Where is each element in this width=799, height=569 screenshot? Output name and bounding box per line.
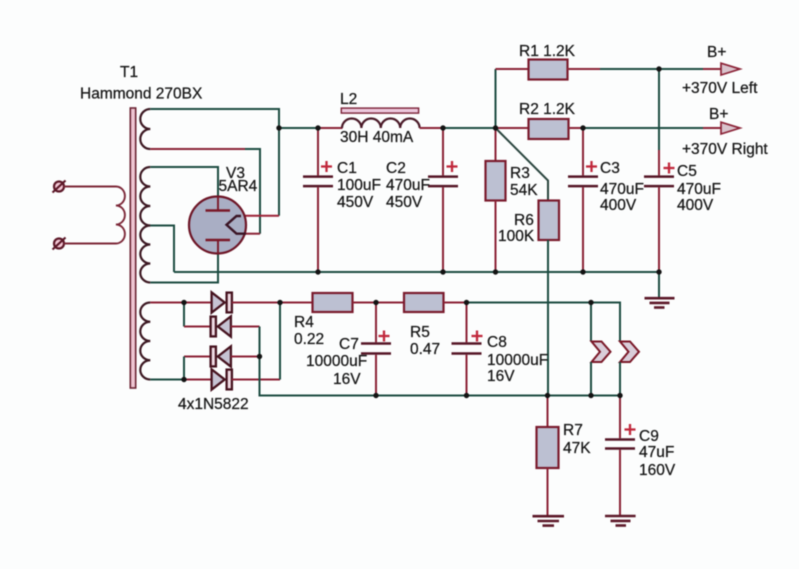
svg-text:Hammond 270BX: Hammond 270BX — [80, 86, 203, 103]
wire cathode lower stub — [246, 233, 260, 235]
svg-text:100uF: 100uF — [337, 177, 381, 194]
junction C1 / main rail — [315, 125, 320, 130]
output arrow B+ left — [721, 63, 740, 75]
wire heater connector 2 to bottom rail — [619, 362, 621, 396]
svg-text:16V: 16V — [487, 368, 515, 385]
svg-text:C8: C8 — [487, 334, 507, 351]
svg-text:B+: B+ — [707, 44, 726, 61]
wire D3 cathode down to D4 row — [183, 357, 185, 380]
svg-text:R6: R6 — [514, 212, 534, 229]
wire W1 bottom to cathode lower stub — [245, 149, 260, 234]
svg-text:C9: C9 — [639, 428, 659, 445]
transformer T1 primary winding — [64, 187, 125, 244]
svg-text:47uF: 47uF — [639, 444, 674, 461]
wire R5 to C8 node — [444, 302, 467, 304]
transformer T1 LV secondary (6.3V heater) — [140, 303, 150, 380]
wire R6 down through rails to R7 node — [547, 240, 549, 396]
svg-text:470uF: 470uF — [677, 181, 721, 198]
svg-text:10000uF: 10000uF — [306, 353, 367, 370]
junction W4 top / D2 branch — [181, 300, 186, 305]
capacitor C5 — [644, 150, 674, 272]
diode D4 — [212, 369, 232, 389]
capacitor C3 — [568, 128, 598, 272]
inductor L2 core bar — [341, 108, 418, 113]
wire B+ left arrow lead — [703, 68, 722, 70]
svg-text:400V: 400V — [677, 197, 714, 214]
svg-text:C5: C5 — [677, 163, 697, 180]
wire D4 cathode to riser — [232, 379, 280, 381]
svg-text:R1 1.2K: R1 1.2K — [519, 43, 576, 60]
capacitor C9 — [605, 440, 635, 517]
transformer T1 HV secondary lower half — [140, 226, 150, 283]
svg-text:C3: C3 — [600, 160, 620, 177]
wire R7 to ground — [547, 468, 549, 516]
terminal J1 (mains input top) — [53, 181, 66, 193]
wire C7 node to R5 — [376, 302, 404, 304]
svg-text:100K: 100K — [498, 228, 535, 245]
capacitor C7 — [361, 303, 391, 396]
wire D1 anode lead — [184, 302, 212, 304]
junction R7 node — [545, 393, 550, 398]
svg-text:47K: 47K — [563, 440, 591, 457]
svg-text:400V: 400V — [600, 197, 637, 214]
connector heater output 1 — [592, 342, 611, 363]
wire heater connector 1 drop — [590, 303, 592, 342]
svg-text:R2 1.2K: R2 1.2K — [519, 101, 576, 118]
diode D3 — [211, 346, 231, 366]
output arrow B+ right — [721, 122, 740, 134]
junction C8 top — [464, 300, 469, 305]
svg-text:30H 40mA: 30H 40mA — [340, 129, 414, 146]
junction C3 / main rail — [580, 125, 585, 130]
wire W1 top to cathode node — [150, 109, 279, 216]
wire R1 output to B+ left node — [600, 68, 659, 70]
tube V3 cathode chevron — [227, 216, 247, 234]
resistor R4 — [313, 293, 353, 312]
tube V3 bottom anode plate — [206, 240, 231, 254]
resistor R2 — [529, 119, 569, 139]
inductor L2 winding — [342, 118, 420, 128]
wire negative drop D2-D3 — [259, 327, 261, 357]
junction C8 bottom rail — [464, 393, 469, 398]
wire branch node up to R1 row — [495, 69, 497, 128]
svg-text:450V: 450V — [337, 194, 374, 211]
svg-text:10000uF: 10000uF — [487, 352, 548, 369]
wire R2 right lead — [569, 127, 584, 129]
svg-text:R5: R5 — [410, 324, 430, 341]
junction C9 node — [617, 393, 622, 398]
polarity + for C3 — [586, 161, 597, 172]
svg-text:R4: R4 — [294, 314, 314, 331]
wire D1 cathode to node A — [232, 302, 280, 304]
svg-text:0.47: 0.47 — [410, 341, 440, 358]
diode D2 — [211, 316, 231, 336]
polarity + for C2 — [447, 161, 458, 172]
wire node A to R4 — [280, 302, 313, 304]
wire B+ right arrow lead — [703, 127, 722, 129]
wire D3 cathode lead — [184, 356, 211, 358]
wire R2 output rail to B+ right — [583, 127, 703, 129]
wire W4 top lead — [150, 302, 184, 304]
wire R2 left lead — [496, 127, 529, 129]
svg-text:C2: C2 — [386, 160, 406, 177]
svg-text:R3: R3 — [510, 165, 530, 182]
ground (top section) — [645, 298, 675, 307]
svg-text:B+: B+ — [709, 106, 728, 123]
polarity + for C1 — [321, 161, 332, 172]
polarity + for C7 — [379, 331, 390, 342]
wire HV center tap to ground rail — [150, 226, 174, 273]
ground (C9) — [605, 516, 636, 526]
svg-text:R7: R7 — [563, 422, 583, 439]
svg-text:16V: 16V — [333, 371, 361, 388]
tube V3 envelope — [189, 197, 246, 254]
wire heater connector 1 to bottom rail — [590, 362, 592, 396]
junction C2 / main rail — [440, 125, 445, 130]
svg-text:0.22: 0.22 — [294, 331, 324, 348]
wire top section ground rail — [174, 271, 659, 273]
wire R7 lead from bottom rail — [547, 396, 549, 428]
wire cathode upper stub — [240, 215, 279, 217]
wire C9 lead from bottom rail — [619, 396, 621, 439]
capacitor C2 — [428, 128, 458, 272]
wire D3 anode to negative node — [231, 356, 260, 358]
transformer T1 HV secondary upper half — [140, 167, 150, 226]
svg-text:+370V Right: +370V Right — [682, 141, 768, 158]
wire R1 left lead — [496, 68, 529, 70]
ground (R7) — [533, 516, 565, 525]
junction C7 top — [373, 300, 378, 305]
junction B+ left / C5 — [656, 66, 661, 71]
wire negative node down to bottom rail — [260, 357, 621, 396]
svg-text:470uF: 470uF — [386, 177, 430, 194]
transformer T1 core — [130, 108, 135, 388]
wire diagonal branch to R6 — [496, 128, 549, 201]
tube V3 top anode plate — [206, 197, 231, 211]
svg-text:160V: 160V — [639, 462, 676, 479]
wire L2 right lead — [420, 127, 443, 129]
resistor R3 — [486, 128, 506, 272]
polarity + for C9 — [625, 424, 636, 435]
wire D2 cathode lead — [184, 326, 211, 328]
junction C5 / ground stub — [656, 269, 661, 274]
svg-text:C7: C7 — [339, 336, 359, 353]
wire main rail C2 to branch node — [443, 127, 496, 129]
resistor R5 — [404, 293, 444, 312]
junction branch node — [493, 125, 498, 130]
wire W2 top to V3 anode — [150, 167, 218, 197]
diode D1 — [212, 292, 232, 312]
wire D4 riser up to node A — [279, 303, 281, 380]
wire W3 bottom to V3 anode — [150, 254, 218, 283]
junction cathode node / main rail — [276, 125, 281, 130]
wire D2 anode to negative drop — [231, 326, 260, 328]
capacitor C8 — [452, 303, 482, 396]
transformer T1 secondary winding W1 (5V filament) — [140, 109, 150, 149]
terminal J2 (mains input bottom) — [53, 238, 66, 250]
wire W1 bottom lead — [150, 148, 245, 150]
wire W4 bottom lead — [150, 379, 184, 381]
svg-text:L2: L2 — [340, 91, 357, 108]
svg-text:4x1N5822: 4x1N5822 — [178, 396, 249, 413]
junction C1 / ground rail — [315, 269, 320, 274]
svg-text:C1: C1 — [337, 160, 357, 177]
wire C8 node to heater connectors — [467, 303, 621, 342]
resistor R7 — [537, 427, 559, 468]
junction heater connector 1 bottom — [588, 393, 593, 398]
junction C2 / ground rail — [440, 269, 445, 274]
junction D2/D3 negative node — [257, 354, 262, 359]
junction W4 bottom / D3 branch — [181, 377, 186, 382]
wire D4 anode lead — [184, 379, 212, 381]
wire C5 top from B+ left node — [658, 69, 660, 150]
wire R1 right lead — [567, 68, 600, 70]
wire B+ left node to arrow — [659, 68, 703, 70]
svg-text:470uF: 470uF — [600, 181, 644, 198]
resistor R1 — [529, 60, 568, 80]
svg-text:5AR4: 5AR4 — [219, 178, 258, 195]
svg-text:450V: 450V — [386, 194, 423, 211]
capacitor C1 — [303, 128, 333, 272]
wire ground stub — [658, 272, 660, 298]
junction C7 bottom rail — [373, 393, 378, 398]
junction heater connector 1 top — [588, 300, 593, 305]
polarity + for C5 — [664, 163, 675, 174]
svg-text:54K: 54K — [510, 182, 538, 199]
connector heater output 2 — [620, 342, 639, 363]
svg-text:+370V Left: +370V Left — [682, 80, 758, 97]
wire L2 left lead — [318, 127, 343, 129]
junction C3 / ground rail — [580, 269, 585, 274]
resistor R6 — [539, 201, 560, 241]
polarity + for C8 — [472, 331, 483, 342]
wire D2 vertical from node — [183, 303, 185, 327]
wire main rail left of L2 — [279, 127, 318, 129]
junction node A D1/D4 — [277, 300, 282, 305]
junction R3 / ground rail — [493, 269, 498, 274]
wire R4 to C7 node — [353, 302, 377, 304]
svg-text:T1: T1 — [120, 64, 138, 81]
